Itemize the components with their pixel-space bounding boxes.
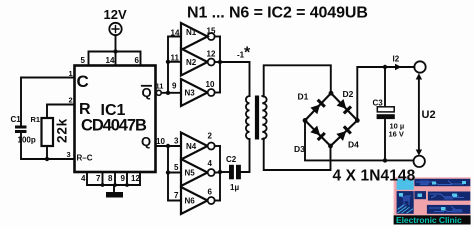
svg-text:4 X 1N4148: 4 X 1N4148	[333, 168, 416, 185]
svg-text:16 V: 16 V	[389, 130, 404, 139]
current arrow I2	[395, 64, 402, 70]
diode D3	[310, 125, 326, 141]
svg-text:1µ: 1µ	[230, 183, 239, 192]
Qbar overbar	[142, 85, 151, 87]
wire C1 down to RC rail	[21, 133, 75, 159]
header label N1..N6	[187, 5, 368, 22]
svg-text:14: 14	[171, 29, 180, 38]
inverter N1	[181, 23, 208, 50]
pin 11 Qbar output circle	[156, 90, 161, 95]
wire to transformer primary top	[220, 62, 250, 96]
svg-text:11: 11	[156, 82, 164, 91]
pin label 14	[106, 56, 115, 65]
svg-text:N4: N4	[186, 142, 197, 151]
svg-text:12: 12	[207, 50, 216, 59]
inverter N6	[181, 187, 208, 214]
svg-text:U2: U2	[422, 109, 436, 121]
output terminal plus	[414, 61, 425, 72]
wire supply rail to pins 5,14,6	[89, 52, 141, 66]
svg-text:N1: N1	[186, 28, 197, 37]
diode D4	[336, 125, 352, 141]
capacitor C1	[15, 126, 27, 129]
svg-text:7: 7	[174, 191, 179, 200]
svg-text:22k: 22k	[54, 118, 69, 143]
wire bus to C2	[220, 171, 229, 173]
transformer T1 primary winding	[246, 96, 250, 139]
wire C2 to primary bottom	[241, 139, 250, 172]
op-amp U1 : IC1 CD4047B box	[75, 66, 156, 173]
svg-text:N6: N6	[185, 197, 196, 206]
inverter N3	[181, 79, 208, 106]
label 4 X 1N4148	[333, 168, 416, 185]
inverter N5	[181, 159, 208, 186]
inverter N2	[181, 49, 208, 76]
wire output bus N4-N6	[219, 146, 221, 201]
node bridge right	[355, 118, 360, 123]
svg-text:9: 9	[121, 174, 126, 183]
wire 12V down to rail	[115, 35, 117, 51]
12V supply terminal circle	[109, 23, 121, 35]
svg-text:5: 5	[81, 56, 86, 65]
svg-text:8: 8	[108, 174, 113, 183]
svg-text:N2: N2	[186, 58, 197, 67]
svg-text:*: *	[244, 45, 251, 62]
svg-text:6: 6	[208, 188, 213, 197]
pin 2 wire to R1	[47, 105, 75, 119]
diode D2	[336, 99, 352, 115]
svg-text:R: R	[79, 101, 91, 118]
svg-text:11: 11	[171, 54, 180, 63]
diode D1	[310, 99, 326, 115]
wire bridge left to minus rail	[305, 120, 414, 160]
svg-text:12V: 12V	[104, 7, 127, 22]
svg-text:3: 3	[174, 137, 179, 146]
svg-text:14: 14	[106, 56, 115, 65]
node supply rail junction	[113, 49, 117, 53]
svg-text:N3: N3	[185, 89, 196, 98]
svg-text:I2: I2	[393, 55, 400, 64]
svg-text:N5: N5	[185, 169, 196, 178]
svg-text:R–C: R–C	[77, 154, 93, 163]
wire input bus up to N1,N2	[168, 37, 181, 93]
svg-text:R1: R1	[31, 115, 41, 124]
svg-text:D3: D3	[294, 144, 305, 154]
svg-text:7: 7	[96, 174, 101, 183]
Electronic Clinic logo	[394, 177, 471, 225]
svg-text:4: 4	[81, 174, 86, 183]
node RC junction	[45, 157, 49, 161]
pin label 5	[81, 56, 86, 65]
svg-text:15: 15	[207, 27, 216, 36]
pin 1 wire to C1	[21, 78, 75, 126]
svg-text:C: C	[77, 72, 89, 91]
svg-text:10: 10	[206, 80, 215, 89]
12V supply label	[104, 7, 127, 22]
svg-text:12: 12	[131, 174, 140, 183]
inverter N4	[181, 133, 208, 160]
pin 10 Q output wire	[156, 145, 182, 147]
svg-text:6: 6	[135, 56, 140, 65]
svg-text:10: 10	[156, 137, 165, 146]
wire bridge right to output plus	[357, 67, 414, 120]
svg-text:Q: Q	[141, 134, 151, 149]
ground pins 4,7,8,9,12	[87, 172, 140, 192]
svg-text:Electronic Clinic: Electronic Clinic	[396, 215, 462, 225]
svg-text:5: 5	[174, 163, 179, 172]
wire secondary top to bridge	[264, 65, 331, 96]
svg-text:2: 2	[69, 96, 73, 105]
svg-text:N1 ... N6 = IC2 = 4049UB: N1 ... N6 = IC2 = 4049UB	[187, 5, 368, 22]
svg-text:9: 9	[172, 82, 177, 91]
pin label 6	[135, 56, 140, 65]
ground	[106, 192, 123, 198]
wire secondary bottom to bridge	[264, 139, 331, 171]
node pin11 branch	[166, 91, 170, 95]
transformer label -1*	[237, 45, 251, 62]
svg-text:1: 1	[69, 69, 73, 78]
resistor R1	[42, 118, 54, 146]
capacitor C3	[384, 67, 386, 107]
wire pin11 to N3 input	[161, 92, 181, 94]
svg-text:D4: D4	[348, 140, 359, 150]
svg-text:4: 4	[208, 159, 213, 168]
wire output bus N1-N3	[219, 37, 221, 93]
svg-text:D1: D1	[298, 92, 309, 102]
svg-text:CD4047B: CD4047B	[81, 117, 147, 135]
node bridge bottom	[328, 144, 333, 149]
output terminal minus	[414, 156, 425, 167]
svg-text:C1: C1	[11, 115, 22, 124]
capacitor C2	[229, 165, 234, 180]
svg-text:Q: Q	[142, 85, 152, 100]
voltage arrow U2	[418, 77, 420, 152]
node bridge top	[329, 91, 334, 96]
svg-text:2: 2	[208, 132, 213, 141]
svg-text:C2: C2	[226, 155, 237, 164]
transformer T1 secondary winding	[262, 96, 266, 139]
bridge rectifier edges	[305, 93, 357, 146]
transformer core	[255, 96, 259, 140]
node bridge left	[303, 118, 308, 123]
svg-text:D2: D2	[343, 89, 354, 99]
wire input bus down to N5,N6	[168, 146, 181, 201]
svg-text:3: 3	[67, 150, 71, 159]
